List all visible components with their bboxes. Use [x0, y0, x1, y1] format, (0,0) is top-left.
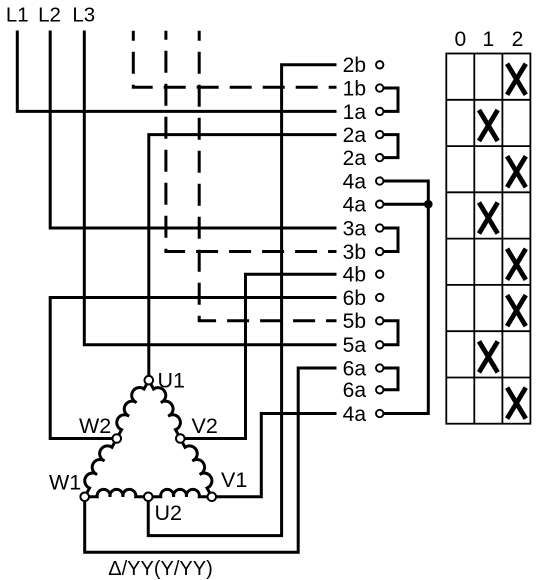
svg-text:V2: V2 [192, 414, 218, 438]
svg-text:5b: 5b [343, 310, 366, 333]
svg-text:0: 0 [454, 28, 466, 51]
wire L1 to terminal 1a [17, 31, 336, 112]
X mark row2 col1 [479, 110, 498, 141]
terminal 4a [376, 177, 383, 184]
node W2 [112, 434, 121, 443]
wire terminal 4a to winding node V1 [212, 414, 337, 497]
wire bracket 1b-1a [380, 88, 398, 111]
svg-text:W2: W2 [79, 414, 111, 438]
wire bracket 3a-3b [380, 228, 398, 252]
svg-text:4a: 4a [343, 170, 367, 193]
terminal 4b [376, 271, 383, 278]
node W1 [80, 493, 89, 502]
terminal 3a [376, 224, 383, 231]
svg-text:4a: 4a [343, 194, 367, 217]
terminal 5b [376, 317, 383, 324]
svg-text:3b: 3b [343, 241, 366, 264]
svg-text:4a: 4a [343, 403, 367, 426]
svg-text:L2: L2 [38, 3, 61, 26]
X mark row8 col2 [507, 388, 526, 419]
node V2 [176, 434, 185, 443]
terminal 1b [376, 84, 383, 91]
wire terminal 2a to winding node U1 [149, 135, 337, 381]
svg-text:1b: 1b [343, 77, 366, 100]
svg-text:3a: 3a [343, 217, 367, 240]
svg-text:4b: 4b [343, 264, 366, 287]
wire bracket 2a-2a [380, 135, 398, 158]
svg-text:V1: V1 [221, 468, 247, 492]
junction dot 4a [424, 200, 433, 209]
winding coil W2-W1 [85, 439, 117, 497]
wire L2 to terminal 3a [50, 31, 336, 229]
winding coil V2-V1 [180, 439, 212, 497]
wire 4a common rail [380, 181, 428, 414]
wire terminal 6b to winding node W2 [50, 298, 336, 439]
terminal 6a [376, 364, 383, 371]
svg-text:W1: W1 [49, 471, 81, 495]
terminal 4a second [376, 201, 383, 208]
winding coil U1-W2 [117, 380, 149, 438]
svg-text:6a: 6a [343, 357, 367, 380]
X mark row3 col2 [507, 156, 526, 187]
svg-text:2b: 2b [343, 54, 366, 77]
wire bracket 5b-5a [380, 321, 398, 345]
svg-text:Δ/YY(Y/YY): Δ/YY(Y/YY) [108, 558, 213, 580]
terminal 2a [376, 131, 383, 138]
winding coil U2-V1 [148, 489, 212, 496]
node V1 [208, 493, 217, 502]
wire dashed to terminal 5b [199, 31, 336, 321]
svg-text:U2: U2 [155, 501, 182, 525]
terminal 2a second [376, 154, 383, 161]
wire dashed to terminal 1b [133, 31, 336, 88]
wire terminal 4b to winding node V2 [180, 274, 336, 438]
svg-text:2: 2 [512, 28, 524, 51]
terminal 6b [376, 294, 383, 301]
svg-text:L1: L1 [6, 3, 29, 26]
wire bracket 6a-6a [380, 368, 398, 390]
terminal 6a second [376, 386, 383, 393]
winding coil U1-V2 [149, 380, 181, 438]
node U1 [145, 376, 154, 385]
svg-text:6a: 6a [343, 379, 367, 402]
wire terminal 2b to winding node U2 [148, 65, 336, 536]
svg-text:6b: 6b [343, 287, 366, 310]
wire terminal 6a to winding node W1 [85, 368, 337, 552]
wire 4a stub [380, 203, 428, 206]
terminal 1a [376, 108, 383, 115]
terminal 5a [376, 341, 383, 348]
svg-text:5a: 5a [343, 334, 367, 357]
svg-text:U1: U1 [158, 369, 185, 393]
terminal 4a third [376, 410, 383, 417]
X mark row5 col2 [507, 249, 526, 280]
svg-text:2a: 2a [343, 124, 367, 147]
svg-text:L3: L3 [72, 3, 95, 26]
wire dashed to terminal 3b [166, 31, 337, 252]
svg-text:1: 1 [483, 28, 495, 51]
X mark row1 col2 [507, 64, 526, 95]
winding coil W1-U2 [85, 489, 149, 496]
node U2 [144, 493, 153, 502]
X mark row6 col2 [507, 295, 526, 326]
X mark row4 col1 [479, 203, 498, 234]
X mark row7 col1 [479, 341, 498, 372]
switch table grid [446, 54, 530, 424]
wire L3 to terminal 5a [84, 31, 336, 345]
svg-text:2a: 2a [343, 147, 367, 170]
svg-text:1a: 1a [343, 101, 367, 124]
terminal 2b [376, 61, 383, 68]
terminal 3b [376, 248, 383, 255]
